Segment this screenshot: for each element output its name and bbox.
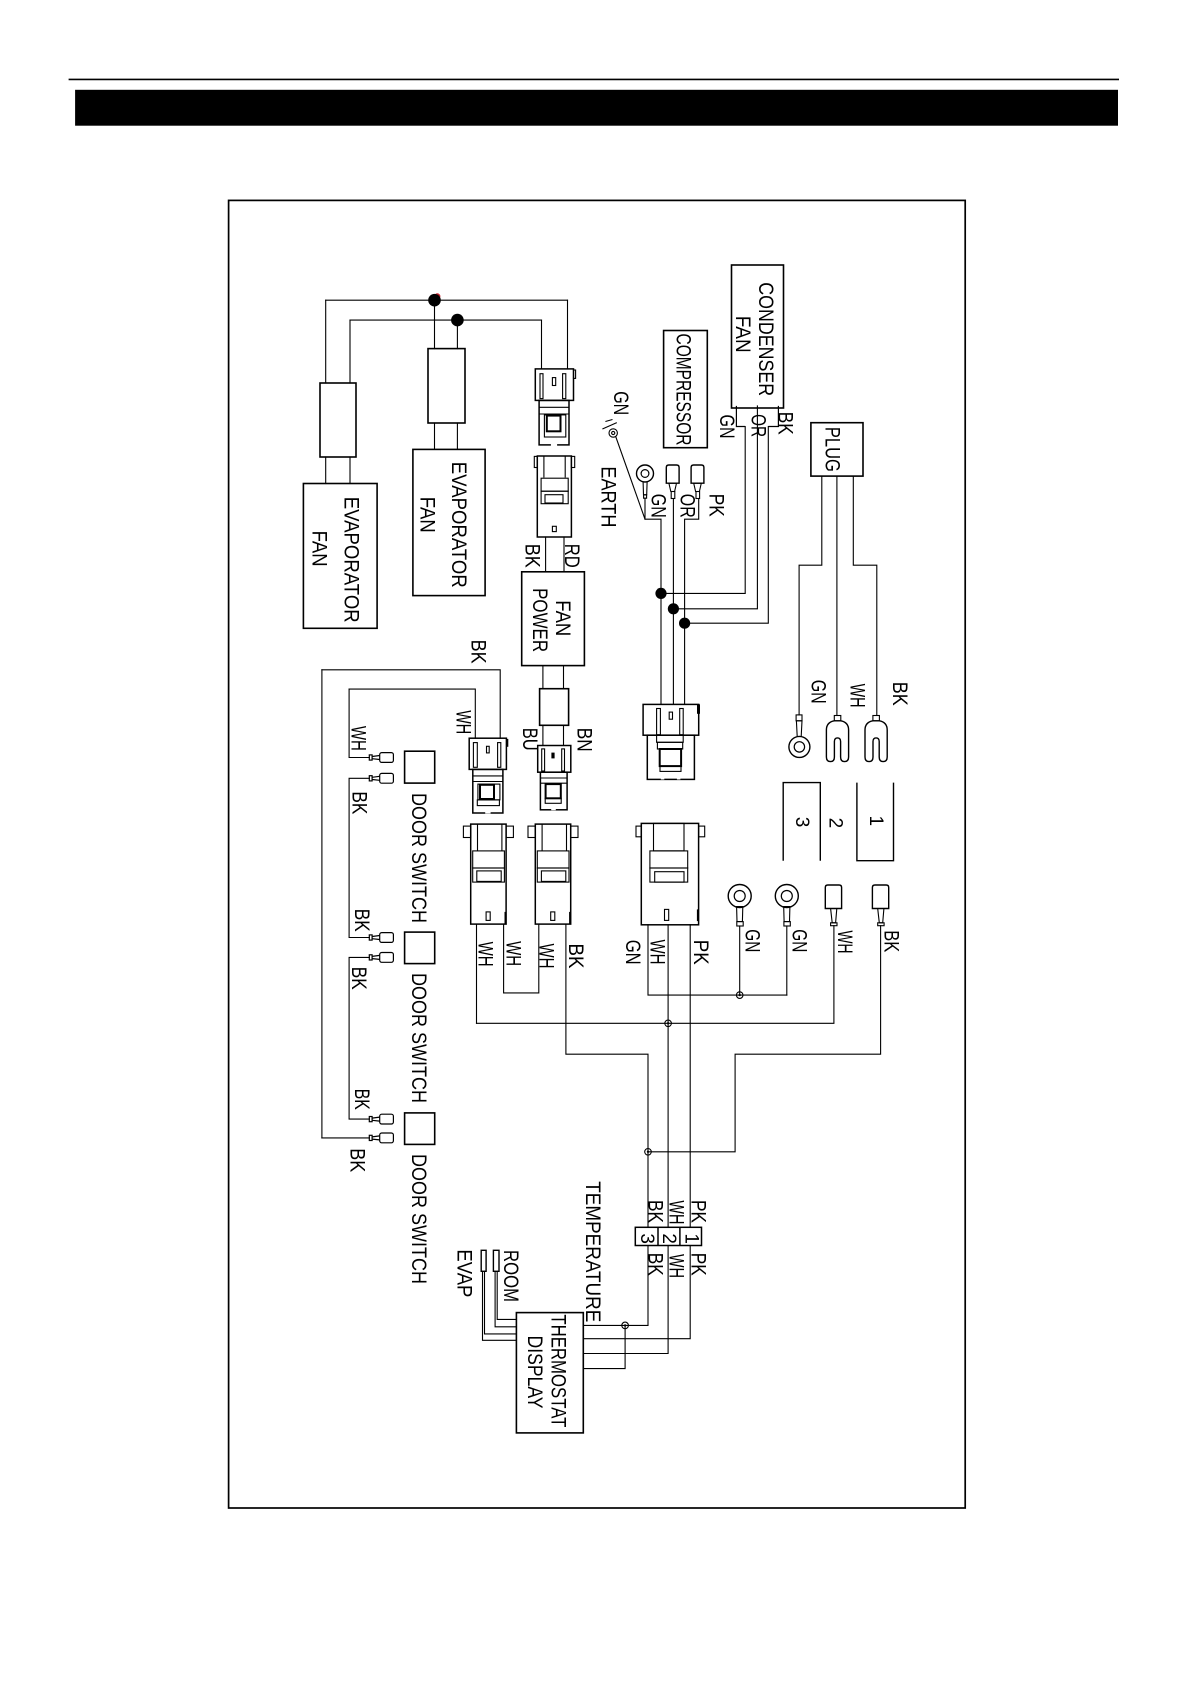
wire: RD lead into fan power bbox=[563, 537, 565, 572]
junction node WH bus bbox=[665, 1020, 672, 1027]
connector CN-M row housing bbox=[528, 824, 578, 924]
wire: GN branch to condenser fan bbox=[661, 427, 745, 594]
wire: earth bonding diagonal bbox=[616, 437, 645, 519]
wire: WH horizontal from door switch 1 to connector CN-L bbox=[349, 689, 475, 738]
svg-text:WH: WH bbox=[645, 940, 668, 965]
evap sensor probe bbox=[481, 1250, 486, 1271]
svg-text:OR: OR bbox=[747, 414, 770, 437]
junction node BK at thermostat bbox=[622, 1322, 629, 1329]
wire: WH terminal block to thermostat display bbox=[583, 1246, 668, 1354]
connector CN1 mated pair (top of fan power chain) bbox=[535, 369, 575, 446]
svg-text:WH: WH bbox=[665, 1200, 688, 1224]
junction node BK branch bbox=[679, 618, 690, 629]
svg-text:BK: BK bbox=[350, 909, 373, 932]
compressor box bbox=[664, 331, 708, 448]
junction node J1 (with red mark) bbox=[434, 293, 440, 299]
wire: room sensor pair to thermostat display bbox=[495, 1271, 516, 1327]
svg-text:WH: WH bbox=[665, 1254, 688, 1278]
wire: BK branch to condenser fan bbox=[685, 427, 769, 624]
svg-text:BK: BK bbox=[644, 1200, 667, 1223]
junction node OR branch bbox=[668, 603, 679, 614]
evaporator fan 2 box M2 bbox=[413, 449, 485, 595]
svg-text:THERMOSTAT: THERMOSTAT bbox=[547, 1314, 570, 1427]
wire: door switch 3 bottom to return bus bbox=[322, 1137, 369, 1139]
svg-text:GN: GN bbox=[609, 391, 632, 415]
wire: GN from connector CN-R to earth ring terminals bbox=[648, 925, 787, 995]
wire: WH bus across to WH spade terminal bbox=[477, 926, 834, 1024]
wire: line A left drop to evaporator fan 1 stub bbox=[325, 300, 327, 383]
condenser fan connector stub bbox=[736, 406, 778, 427]
earth symbol: double slash and eyelet bbox=[602, 420, 617, 438]
wire: BK jumper at thermostat display bbox=[583, 1325, 625, 1368]
svg-text:ROOM: ROOM bbox=[499, 1250, 522, 1302]
svg-text:WH: WH bbox=[451, 710, 474, 734]
wire: plug middle lead (WH) bbox=[836, 476, 838, 715]
door switch 2 box S2 bbox=[405, 932, 435, 964]
compressor OR spade terminal bbox=[666, 465, 679, 499]
svg-text:WH: WH bbox=[846, 684, 869, 708]
svg-text:PLUG: PLUG bbox=[821, 427, 844, 472]
svg-text:WH: WH bbox=[501, 941, 524, 966]
wire: BK spade terminal drop and cross-link bbox=[648, 926, 881, 1152]
wire: WH link CN-L to CN-M bbox=[504, 924, 539, 993]
svg-text:RD: RD bbox=[560, 544, 583, 568]
svg-text:DOOR SWITCH: DOOR SWITCH bbox=[407, 973, 430, 1103]
svg-text:BK: BK bbox=[564, 944, 587, 969]
room sensor probe bbox=[493, 1250, 499, 1271]
terminal strip cell 1 (plug side) bbox=[857, 783, 894, 861]
svg-text:GN: GN bbox=[741, 929, 764, 952]
svg-text:BK: BK bbox=[346, 1148, 369, 1172]
svg-text:1: 1 bbox=[681, 1233, 702, 1244]
door switch 1 top faston terminal bbox=[369, 753, 393, 763]
svg-text:WH: WH bbox=[833, 931, 856, 954]
svg-text:GN: GN bbox=[807, 680, 830, 704]
wire: WH lead 1 of connector CN-L bbox=[476, 924, 478, 1023]
connector CN-L row housing bbox=[463, 824, 513, 924]
WH spade terminal (lower) bbox=[825, 885, 841, 926]
wire: line B left drop to evaporator fan 1 stub bbox=[349, 320, 351, 383]
wire: evaporator fan 1 leads bbox=[325, 457, 327, 484]
svg-text:BK: BK bbox=[773, 412, 796, 435]
svg-text:2: 2 bbox=[658, 1233, 679, 1244]
wire: line B right drop to connector CN1 bbox=[541, 320, 543, 369]
wire: line A right drop to connector CN1 bbox=[567, 300, 569, 369]
svg-text:BK: BK bbox=[347, 967, 370, 990]
svg-text:BK: BK bbox=[348, 791, 371, 814]
svg-text:BK: BK bbox=[467, 640, 490, 664]
svg-text:PK: PK bbox=[687, 1200, 710, 1223]
junction node J2 bbox=[451, 314, 464, 327]
plug box bbox=[811, 423, 863, 476]
connector CN-R row housing (compressor/plug harness) bbox=[636, 823, 705, 924]
svg-text:3: 3 bbox=[636, 1233, 657, 1244]
fan power box U1 bbox=[522, 572, 585, 666]
header black title bar bbox=[75, 90, 1118, 126]
wire: BK horizontal from door-switch loop to connector CN-L bbox=[322, 670, 500, 738]
svg-text:BK: BK bbox=[888, 682, 911, 706]
svg-text:GN: GN bbox=[715, 415, 738, 439]
door switch 1 bottom faston terminal bbox=[369, 773, 393, 783]
wire: WH drop to door switch 1 top terminal bbox=[349, 689, 369, 757]
door switch 2 top faston terminal bbox=[369, 933, 393, 943]
door switch 2 bottom faston terminal bbox=[369, 953, 393, 963]
wire: WH from connector CN-R down to terminal block bbox=[667, 925, 669, 1228]
connector CN4 mated pair (compressor) bbox=[643, 704, 700, 779]
BK spade terminal (lower) bbox=[872, 885, 888, 926]
svg-text:BK: BK bbox=[350, 1089, 373, 1110]
door switch 3 box S3 bbox=[405, 1113, 435, 1145]
svg-text:POWER: POWER bbox=[528, 588, 551, 652]
svg-text:BU: BU bbox=[518, 728, 541, 751]
svg-text:GN: GN bbox=[621, 940, 644, 965]
wire: earth ring terminal 1 lead bbox=[739, 926, 741, 995]
svg-text:TEMPERATURE: TEMPERATURE bbox=[581, 1181, 604, 1322]
wire: BK terminal block to thermostat display bbox=[583, 1246, 648, 1326]
svg-text:FAN: FAN bbox=[416, 497, 439, 533]
connector CN-L mated pair (door switch harness) bbox=[469, 738, 508, 813]
svg-text:PK: PK bbox=[687, 1253, 710, 1276]
thermostat display box bbox=[516, 1313, 583, 1433]
svg-text:GN: GN bbox=[647, 494, 670, 518]
svg-text:EARTH: EARTH bbox=[597, 466, 620, 527]
wire: OR from compressor spade to connector bbox=[672, 499, 674, 705]
evaporator fan 1 box M1 bbox=[303, 484, 377, 629]
svg-text:1: 1 bbox=[865, 816, 886, 827]
compressor GN ring terminal bbox=[637, 465, 654, 498]
wire: top bus line B bbox=[350, 319, 542, 321]
door switch 3 top faston terminal bbox=[369, 1114, 393, 1124]
svg-text:WH: WH bbox=[535, 944, 558, 969]
wire: fan power to sleeve bbox=[542, 666, 544, 689]
svg-text:GN: GN bbox=[787, 929, 810, 952]
wire: door switch return bus (left vertical) bbox=[321, 670, 323, 1138]
svg-text:PK: PK bbox=[705, 494, 728, 517]
svg-text:3: 3 bbox=[791, 817, 812, 828]
wire: junction J1 drop to evaporator fan 2 stub bbox=[434, 300, 436, 348]
thermostat terminal block 1-2-3 bbox=[635, 1227, 701, 1245]
schematic border frame bbox=[229, 200, 966, 1508]
wire: GN from compressor ring terminal to junction column bbox=[645, 498, 661, 704]
svg-text:BN: BN bbox=[572, 728, 595, 752]
svg-text:FAN: FAN bbox=[551, 600, 574, 636]
svg-text:BK: BK bbox=[521, 544, 544, 568]
junction node GN branch bbox=[655, 588, 666, 599]
compressor PK spade terminal bbox=[691, 465, 704, 499]
wire: PK terminal block to thermostat display bbox=[583, 1246, 690, 1339]
wire: PK from compressor spade to junction column bbox=[685, 499, 699, 705]
svg-text:DOOR SWITCH: DOOR SWITCH bbox=[407, 1154, 430, 1284]
plug BK fork terminal bbox=[865, 716, 887, 762]
wire: door switch 2 bottom to door switch 3 top bbox=[349, 957, 369, 1119]
svg-text:EVAP: EVAP bbox=[452, 1249, 475, 1297]
svg-text:COMPRESSOR: COMPRESSOR bbox=[671, 334, 694, 446]
junction node BK link bbox=[645, 1149, 652, 1156]
connector CN2 male housing (below CN1) bbox=[534, 456, 574, 537]
svg-text:2: 2 bbox=[825, 818, 846, 829]
wire: OR branch to condenser fan bbox=[673, 406, 757, 609]
wire: evaporator fan 2 leads bbox=[434, 423, 436, 449]
wire: BK lead into fan power bbox=[545, 537, 547, 572]
plug GN ring terminal (earth lug) bbox=[789, 715, 810, 758]
svg-text:EVAPORATOR: EVAPORATOR bbox=[447, 462, 470, 588]
svg-text:FAN: FAN bbox=[308, 531, 331, 567]
svg-text:WH: WH bbox=[473, 942, 496, 967]
svg-text:BK: BK bbox=[880, 930, 903, 952]
condenser fan box bbox=[732, 265, 784, 408]
earth ring terminal 1 (ring up) bbox=[728, 885, 751, 927]
wire: plug left lead (GN) with jog bbox=[799, 476, 822, 715]
evaporator fan 2 motor stub bbox=[428, 349, 465, 423]
svg-text:OR: OR bbox=[675, 494, 698, 518]
wire: BK from connector CN-M to terminal block column bbox=[566, 924, 648, 1227]
junction node GN earth rings bbox=[736, 992, 743, 999]
plug WH fork terminal bbox=[826, 716, 848, 762]
svg-text:WH: WH bbox=[347, 726, 370, 751]
svg-text:CONDENSER: CONDENSER bbox=[754, 282, 777, 396]
wire: sleeve to connector CN3 (BU/BN) bbox=[542, 725, 544, 745]
earth ring terminal 2 (ring up) bbox=[775, 885, 798, 927]
evaporator fan 1 motor stub bbox=[320, 383, 356, 457]
svg-text:DOOR SWITCH: DOOR SWITCH bbox=[407, 793, 430, 923]
door switch 1 box S1 bbox=[405, 751, 435, 783]
wire: door switch 1 bottom to door switch 2 top bbox=[349, 778, 369, 937]
svg-text:EVAPORATOR: EVAPORATOR bbox=[340, 497, 363, 623]
svg-text:PK: PK bbox=[689, 940, 712, 965]
svg-text:BK: BK bbox=[644, 1253, 667, 1276]
header rule line bbox=[69, 78, 1119, 80]
svg-text:FAN: FAN bbox=[731, 316, 754, 353]
wire: top bus line A bbox=[326, 299, 568, 301]
wire sleeve below fan power bbox=[540, 689, 569, 726]
wire: plug right lead (BK) with jog bbox=[853, 476, 877, 715]
wire: earth ring terminal 2 lead bbox=[786, 926, 788, 995]
wire: junction J2 drop to evaporator fan 2 stub bbox=[456, 320, 458, 349]
door switch 3 bottom faston terminal bbox=[369, 1133, 393, 1143]
wire: evap sensor pair to thermostat display bbox=[483, 1271, 517, 1340]
connector CN3 mated pair (BU/BN from fan power) bbox=[538, 746, 571, 811]
wire: PK from connector CN-R down to terminal block bbox=[689, 925, 691, 1228]
terminal strip cell 3 (plug side) bbox=[783, 783, 893, 861]
svg-text:DISPLAY: DISPLAY bbox=[523, 1336, 546, 1409]
